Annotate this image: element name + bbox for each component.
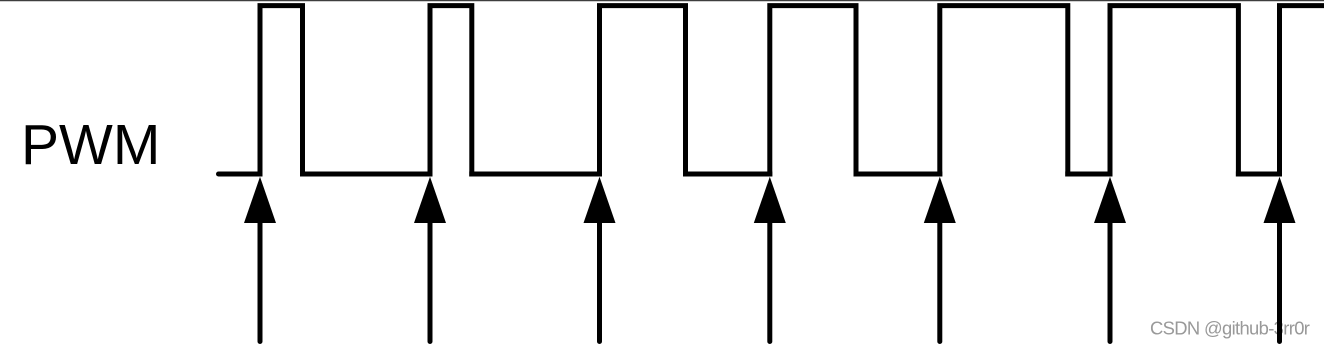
pulse 3 (50% duty) [600, 6, 686, 174]
svg-text:PWM: PWM [21, 113, 160, 177]
pulse 2 (25% duty) [430, 6, 472, 174]
pulse 7 (clipped at right edge) [1280, 6, 1324, 174]
arrow 1 head [244, 177, 276, 223]
svg-text:CSDN @github-3rr0r: CSDN @github-3rr0r [1150, 318, 1310, 339]
arrow 7 tail [1277, 223, 1282, 342]
pulse 4 (50% duty) [770, 6, 856, 174]
arrow 7 head [1264, 177, 1296, 223]
wire low segment 2 [472, 172, 600, 177]
arrow 6 tail [1108, 223, 1113, 342]
wire low segment 1 [303, 172, 431, 177]
arrow 5 head [924, 177, 956, 223]
arrow 6 head [1094, 177, 1126, 223]
arrow 3 tail [597, 223, 602, 342]
label PWM [21, 113, 160, 177]
arrow 1 tail [258, 223, 263, 342]
wire low segment 5 [1068, 172, 1110, 177]
arrow 4 head [754, 177, 786, 223]
arrow 5 tail [937, 223, 942, 342]
pulse 1 (25% duty) [260, 6, 303, 174]
watermark CSDN @github-3rr0r [1150, 318, 1310, 339]
top screenshot border line [0, 0, 1324, 2]
arrow 3 head [584, 177, 616, 223]
wire low segment 4 [856, 172, 940, 177]
arrow 2 head [414, 177, 446, 223]
arrow 2 tail [428, 223, 433, 342]
pulse 5 (75% duty) [940, 6, 1068, 174]
wire low segment 6 [1238, 172, 1279, 177]
arrow 4 tail [767, 223, 772, 342]
wire baseline lead-in [219, 172, 261, 177]
wire low segment 3 [686, 172, 770, 177]
pulse 6 (75% duty) [1110, 6, 1238, 174]
